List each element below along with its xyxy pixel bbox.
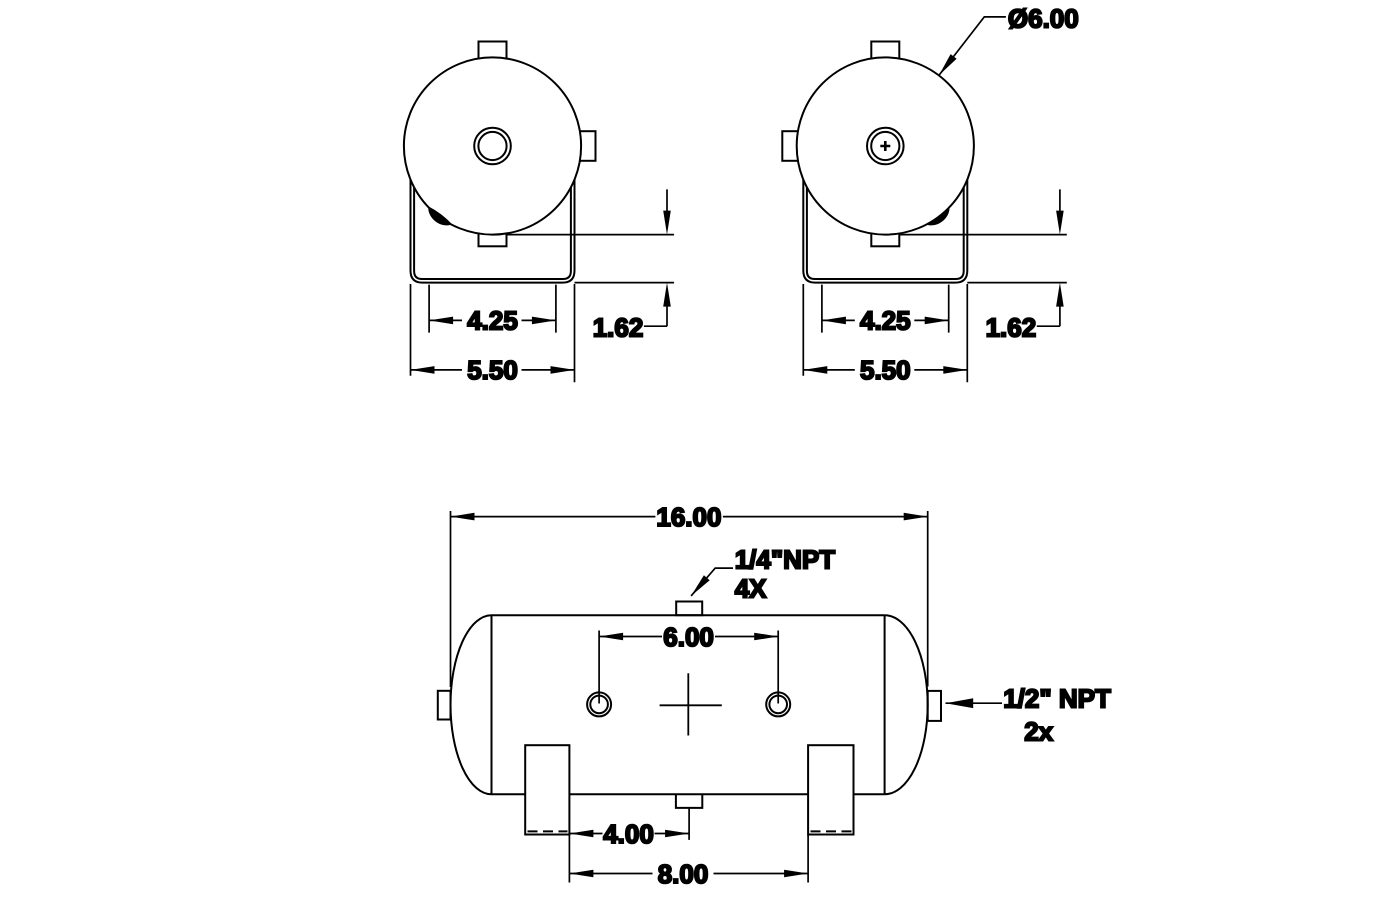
dimension 5.50 (right view) — [803, 284, 967, 385]
left end view: tank end circle — [404, 57, 581, 234]
svg-text:4.25: 4.25 — [467, 306, 518, 336]
diameter callout Ø6.00 — [939, 4, 1079, 76]
svg-text:5.50: 5.50 — [860, 355, 911, 385]
dimension 16.00 — [451, 502, 928, 687]
left end view: mounting bracket — [411, 180, 575, 283]
svg-text:6.00: 6.00 — [663, 622, 714, 652]
dimension 6.00 — [599, 622, 778, 704]
svg-text:4X: 4X — [735, 574, 767, 604]
svg-text:1/4"NPT: 1/4"NPT — [735, 544, 836, 574]
left end view: bottom port fitting — [479, 226, 507, 246]
svg-text:8.00: 8.00 — [658, 859, 709, 889]
svg-text:1.62: 1.62 — [986, 312, 1037, 342]
left end view: top port fitting — [479, 42, 507, 60]
svg-text:4.25: 4.25 — [860, 306, 911, 336]
left end view: weld bead — [428, 206, 452, 225]
side view: right mounting foot — [808, 745, 853, 834]
right end view: bottom port fitting — [871, 226, 899, 246]
side view: right end port fitting — [928, 691, 941, 721]
side view: center mark cross — [660, 673, 722, 735]
svg-text:2x: 2x — [1024, 717, 1053, 747]
svg-text:Ø6.00: Ø6.00 — [1008, 4, 1079, 34]
right end view: center port — [867, 128, 904, 165]
callout 1/2" NPT 2x — [946, 683, 1112, 746]
left end view: side port fitting — [573, 131, 596, 161]
dimension 8.00 — [569, 835, 808, 889]
side view: top port fitting — [676, 602, 702, 616]
left end view: center port — [474, 128, 511, 165]
side view: left end port fitting — [438, 691, 451, 720]
side view: left side port circle — [587, 692, 611, 716]
side view: right side port circle — [766, 692, 790, 716]
right end view: tank end circle — [797, 57, 974, 234]
right end view: center mark cross — [880, 141, 890, 151]
dimension 4.25 (right view) — [822, 285, 949, 336]
right end view: mounting bracket — [803, 180, 967, 283]
callout 1/4"NPT 4X — [691, 544, 835, 603]
right end view: top port fitting — [871, 42, 899, 60]
dimension 4.25 (left view) — [429, 285, 556, 336]
side view: right head — [885, 615, 928, 794]
side view: tank shell — [492, 615, 885, 794]
dimension 4.00 — [569, 808, 689, 849]
side view: left head — [451, 615, 492, 794]
dimension 1.62 (left view) — [507, 189, 675, 342]
svg-text:1/2" NPT: 1/2" NPT — [1003, 683, 1111, 713]
dimension 1.62 (right view) — [899, 189, 1067, 342]
dimension 5.50 (left view) — [411, 284, 575, 385]
right end view: weld bead — [926, 206, 950, 225]
svg-text:4.00: 4.00 — [603, 819, 654, 849]
svg-text:5.50: 5.50 — [467, 355, 518, 385]
side view: left mounting foot — [525, 745, 569, 834]
svg-text:16.00: 16.00 — [656, 502, 721, 532]
side view: bottom port fitting — [676, 794, 702, 808]
right end view: side port fitting — [782, 131, 805, 161]
svg-text:1.62: 1.62 — [593, 312, 644, 342]
